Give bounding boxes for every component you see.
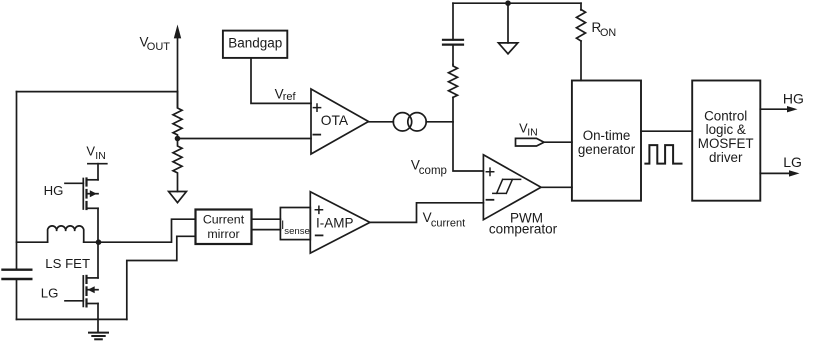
label Vref [275, 86, 297, 103]
comparator PWM [483, 155, 541, 220]
block Control logic and MOSFET driver [692, 81, 760, 201]
wire VIN flag to on-time [544, 141, 572, 143]
wire PWM out to on-time [541, 186, 572, 188]
svg-text:OUT: OUT [147, 41, 171, 53]
label Vcurrent [423, 210, 466, 229]
label PWM comperator [489, 210, 558, 236]
op-amp I-AMP [310, 192, 370, 253]
svg-text:HG: HG [44, 183, 64, 198]
svg-text:generator: generator [578, 142, 636, 157]
svg-text:comp: comp [419, 165, 447, 177]
ground top (open triangle) [498, 43, 517, 54]
svg-text:IN: IN [527, 127, 538, 139]
wire VOUT left rail [16, 92, 18, 269]
wire RON to on-time [580, 41, 582, 81]
svg-text:mirror: mirror [207, 227, 239, 241]
svg-text:current: current [431, 217, 465, 229]
capacitor Ccomp [443, 40, 463, 45]
wire VOUT rail top [17, 91, 178, 93]
svg-text:comperator: comperator [489, 221, 558, 236]
node top junction [505, 0, 511, 6]
node switch node [96, 239, 102, 245]
svg-text:HG: HG [783, 90, 804, 106]
wire on-time to control [641, 130, 692, 132]
block Current mirror [196, 210, 252, 245]
svg-text:Control: Control [704, 108, 747, 123]
label VOUT [140, 35, 171, 53]
wire sense path to current mirror bottom [127, 236, 196, 319]
square wave symbol [645, 145, 681, 164]
wire LG source down [97, 304, 99, 333]
wire I-AMP out to PWM minus [370, 203, 484, 223]
wire HG output [760, 106, 797, 112]
wire top ground stem [507, 3, 509, 43]
node VIN flag [516, 120, 545, 146]
wire left rail lower [16, 280, 18, 320]
svg-text:LS FET: LS FET [45, 256, 90, 271]
wire FB to OTA minus [178, 138, 312, 140]
svg-text:logic &: logic & [706, 122, 746, 137]
wire Vcomp vertical [453, 97, 483, 171]
svg-text:ref: ref [283, 91, 297, 103]
wire RON top [580, 3, 582, 10]
wire top rail [453, 2, 581, 4]
resistor R2 feedback bottom [173, 139, 182, 192]
current source symbol (two circles) [393, 113, 426, 131]
svg-text:LG: LG [783, 154, 802, 170]
resistor Rcomp [449, 65, 458, 98]
resistor R1 feedback top [173, 92, 182, 139]
wire HG source to switch node [97, 208, 99, 242]
wire cap to Rcomp [452, 45, 454, 65]
svg-text:IN: IN [95, 150, 106, 162]
wire current source to Vcomp node [426, 121, 453, 123]
wire Bandgap to OTA plus [251, 59, 311, 104]
wire top to comp cap [452, 3, 454, 40]
capacitor COUT [3, 270, 32, 279]
ground earth power stage [89, 333, 108, 340]
svg-text:ON: ON [600, 27, 616, 39]
wire mirror out bottom [252, 229, 281, 231]
block Bandgap [223, 31, 287, 58]
svg-text:LG: LG [41, 286, 59, 301]
svg-text:I-AMP: I-AMP [316, 215, 354, 230]
wire ground bottom [17, 318, 127, 320]
resistor RON [577, 10, 586, 42]
svg-text:Bandgap: Bandgap [228, 36, 282, 51]
op-amp OTA U1 [311, 89, 369, 154]
node FB junction [175, 136, 181, 142]
label VIN power [86, 143, 105, 162]
transistor LG FET [65, 242, 98, 306]
svg-text:OTA: OTA [321, 113, 349, 128]
wire VIN to HG drain [97, 164, 99, 180]
transistor HG FET [65, 179, 98, 210]
wire OTA out [369, 121, 394, 123]
label Vcomp [411, 158, 447, 177]
wire mirror out top [252, 218, 281, 220]
svg-text:On-time: On-time [583, 128, 631, 143]
svg-text:MOSFET: MOSFET [698, 136, 754, 151]
svg-text:sense: sense [284, 226, 310, 237]
svg-text:V: V [86, 143, 95, 158]
block On-time generator [572, 81, 641, 201]
inductor L [17, 226, 99, 242]
node VIN bar [88, 163, 107, 165]
svg-text:driver: driver [709, 150, 743, 165]
label RON [592, 20, 617, 39]
wire switch node to current mirror top [99, 219, 196, 242]
node VOUT arrow [174, 25, 181, 108]
svg-text:Current: Current [203, 213, 245, 227]
node Isense box [280, 208, 310, 240]
wire LG output [760, 170, 799, 176]
ground divider (open triangle) [169, 192, 187, 203]
